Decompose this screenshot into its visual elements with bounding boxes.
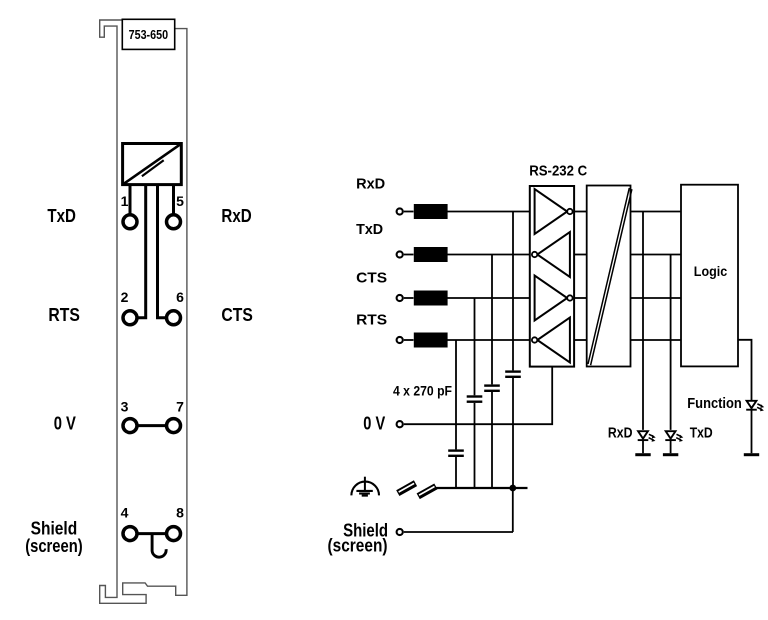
wire to TxD LED xyxy=(670,255,672,430)
converter U1 (box with diagonals) xyxy=(123,144,182,185)
capacitor C4 drop (from RTS row) xyxy=(455,340,457,449)
svg-text:CTS: CTS xyxy=(221,304,252,325)
wire leg pin5 xyxy=(172,185,175,214)
svg-text:TxD: TxD xyxy=(47,205,76,226)
svg-text:0 V: 0 V xyxy=(54,412,77,433)
svg-text:(screen): (screen) xyxy=(328,535,388,556)
svg-text:TxD: TxD xyxy=(356,221,383,238)
svg-text:5: 5 xyxy=(176,193,184,209)
svg-text:RS-232 C: RS-232 C xyxy=(529,162,587,179)
label box 753-650 xyxy=(122,19,174,49)
svg-text:(screen): (screen) xyxy=(25,535,82,556)
wire row2 gap xyxy=(575,254,587,256)
svg-text:4 x 270 pF: 4 x 270 pF xyxy=(393,382,452,398)
LED Function xyxy=(744,401,764,455)
svg-text:TxD: TxD xyxy=(690,424,713,441)
terminal RTS xyxy=(397,337,403,343)
terminal RxD xyxy=(397,208,403,214)
svg-text:RxD: RxD xyxy=(221,205,251,226)
buffer A4 (RTS, left-pointing) xyxy=(537,318,570,363)
wire shield xyxy=(404,531,513,533)
ground symbol xyxy=(351,477,379,496)
svg-text:7: 7 xyxy=(176,398,184,414)
RS-232 driver box U2 xyxy=(530,186,574,367)
buffer A1 (RxD, right-pointing) xyxy=(535,189,568,234)
filter FB2 (TxD) xyxy=(414,247,448,262)
wire xyxy=(404,254,414,256)
module 753-650 body outline xyxy=(100,20,187,603)
svg-text:753-650: 753-650 xyxy=(129,27,169,42)
capacitor C3 drop (from CTS row) xyxy=(474,298,476,395)
buffer A3 (CTS, right-pointing) xyxy=(535,276,568,321)
svg-text:Function: Function xyxy=(687,395,742,412)
svg-text:4: 4 xyxy=(121,505,129,521)
terminal CTS xyxy=(397,295,403,301)
svg-text:0 V: 0 V xyxy=(363,413,385,434)
capacitor C2 drop (from TxD row) xyxy=(491,255,493,385)
DIN rail icon xyxy=(396,480,437,499)
wire pins 3-7 xyxy=(138,424,166,427)
svg-text:1: 1 xyxy=(121,193,129,209)
filter FB4 (RTS) xyxy=(414,333,448,348)
wire to RxD LED xyxy=(642,212,644,430)
terminal Shield xyxy=(397,529,403,535)
wire row2 to logic xyxy=(631,254,682,256)
wire pins 4-8 xyxy=(138,532,166,535)
wire 0V xyxy=(404,367,552,425)
wire row4 gap xyxy=(575,339,587,341)
svg-text:CTS: CTS xyxy=(356,269,387,286)
wire leg pin6 xyxy=(158,185,166,318)
filter FB1 (RxD) xyxy=(414,204,448,219)
svg-text:2: 2 xyxy=(121,289,129,305)
terminal 0V xyxy=(397,421,403,427)
wire leg pin2 xyxy=(138,185,146,318)
logic box U4 xyxy=(681,185,738,367)
wire leg pin1 xyxy=(129,185,132,214)
ground rail wire xyxy=(430,487,528,489)
svg-text:3: 3 xyxy=(121,398,129,414)
svg-text:RTS: RTS xyxy=(356,311,387,328)
LED RxD xyxy=(635,431,655,455)
wire to Function LED xyxy=(738,340,752,401)
wire row1 to logic xyxy=(631,211,682,213)
wire row4 to logic xyxy=(631,339,682,341)
buffer A2 (TxD, left-pointing) xyxy=(537,232,570,277)
svg-text:8: 8 xyxy=(176,505,184,521)
junction node xyxy=(509,485,516,492)
wire shield riser xyxy=(512,488,514,532)
svg-text:6: 6 xyxy=(176,289,184,305)
capacitor C1 drop (from RxD row) xyxy=(512,212,514,371)
wire row3 to logic xyxy=(631,297,682,299)
LED TxD xyxy=(663,431,683,455)
wire xyxy=(404,297,414,299)
svg-text:RxD: RxD xyxy=(356,176,385,193)
wire CTS row xyxy=(447,297,531,299)
svg-text:RxD: RxD xyxy=(608,424,633,441)
filter FB3 (CTS) xyxy=(414,291,448,306)
terminal TxD xyxy=(397,251,403,257)
wire xyxy=(404,339,414,341)
svg-text:Logic: Logic xyxy=(694,263,728,279)
svg-text:RTS: RTS xyxy=(48,304,80,325)
wire RTS row xyxy=(447,339,531,341)
wire row1 gap xyxy=(575,211,587,213)
wire RxD row xyxy=(447,211,531,213)
wire TxD row xyxy=(447,254,531,256)
wire row3 gap xyxy=(575,297,587,299)
isolation barrier U3 xyxy=(587,186,631,367)
shield hook on pins 4-8 xyxy=(152,534,166,558)
wire xyxy=(404,211,414,213)
